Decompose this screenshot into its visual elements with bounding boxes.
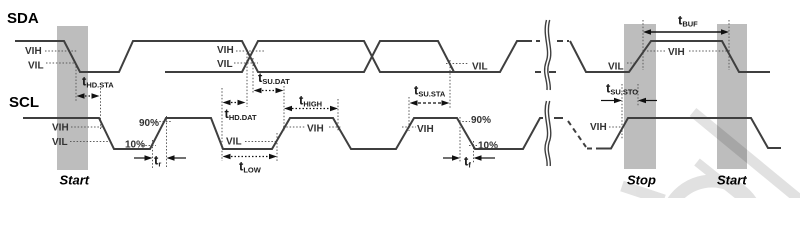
svg-text:tHD.DAT: tHD.DAT (225, 106, 258, 122)
svg-text:tHIGH: tHIGH (299, 93, 322, 109)
svg-text:VIL: VIL (226, 137, 242, 148)
svg-text:tr: tr (154, 153, 161, 169)
svg-text:90%: 90% (139, 118, 159, 129)
svg-text:VIL: VIL (608, 62, 624, 73)
svg-text:VIH: VIH (52, 123, 69, 134)
svg-text:VIH: VIH (307, 124, 324, 135)
svg-text:tf: tf (464, 154, 471, 170)
svg-text:Start: Start (60, 173, 90, 188)
svg-text:90%: 90% (471, 115, 491, 126)
svg-text:Stop: Stop (627, 173, 656, 188)
svg-text:SDA: SDA (7, 10, 39, 27)
svg-text:10%: 10% (125, 140, 145, 151)
svg-text:VIH: VIH (668, 47, 685, 58)
svg-text:SCL: SCL (9, 94, 39, 111)
svg-text:VIL: VIL (472, 62, 488, 73)
svg-text:VIL: VIL (52, 137, 68, 148)
svg-text:VIL: VIL (217, 59, 233, 70)
svg-text:VIH: VIH (217, 45, 234, 56)
svg-text:VIH: VIH (25, 46, 42, 57)
svg-text:Start: Start (717, 173, 747, 188)
svg-text:VIH: VIH (417, 124, 434, 135)
svg-text:tSU.STA: tSU.STA (414, 83, 446, 99)
svg-text:tBUF: tBUF (678, 13, 698, 29)
svg-text:VIL: VIL (28, 61, 44, 72)
svg-text:tLOW: tLOW (239, 159, 262, 175)
svg-text:10%: 10% (478, 141, 498, 152)
svg-text:VIH: VIH (590, 122, 607, 133)
